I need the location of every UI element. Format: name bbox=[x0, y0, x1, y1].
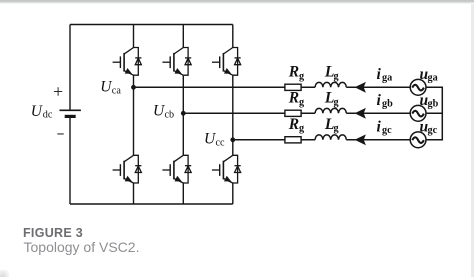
svg-text:i: i bbox=[377, 66, 382, 83]
svg-text:i: i bbox=[377, 92, 382, 109]
svg-text:gb: gb bbox=[428, 99, 439, 110]
svg-text:cb: cb bbox=[165, 109, 175, 120]
svg-text:i: i bbox=[377, 119, 382, 136]
svg-text:g: g bbox=[299, 71, 304, 82]
svg-text:ca: ca bbox=[112, 85, 122, 96]
svg-text:ga: ga bbox=[428, 73, 438, 84]
svg-text:g: g bbox=[299, 123, 304, 134]
svg-text:gc: gc bbox=[382, 125, 392, 136]
svg-text:ga: ga bbox=[382, 73, 392, 84]
svg-text:R: R bbox=[288, 89, 299, 106]
svg-text:g: g bbox=[334, 123, 339, 134]
svg-text:g: g bbox=[299, 97, 304, 108]
svg-text:gb: gb bbox=[382, 99, 393, 110]
svg-text:−: − bbox=[57, 127, 65, 142]
svg-text:R: R bbox=[288, 116, 299, 133]
svg-text:cc: cc bbox=[216, 137, 226, 148]
svg-text:R: R bbox=[288, 63, 299, 80]
svg-text:gc: gc bbox=[428, 125, 438, 136]
svg-text:g: g bbox=[334, 97, 339, 108]
svg-text:dc: dc bbox=[43, 109, 53, 120]
svg-text:g: g bbox=[334, 71, 339, 82]
svg-text:+: + bbox=[53, 81, 63, 101]
